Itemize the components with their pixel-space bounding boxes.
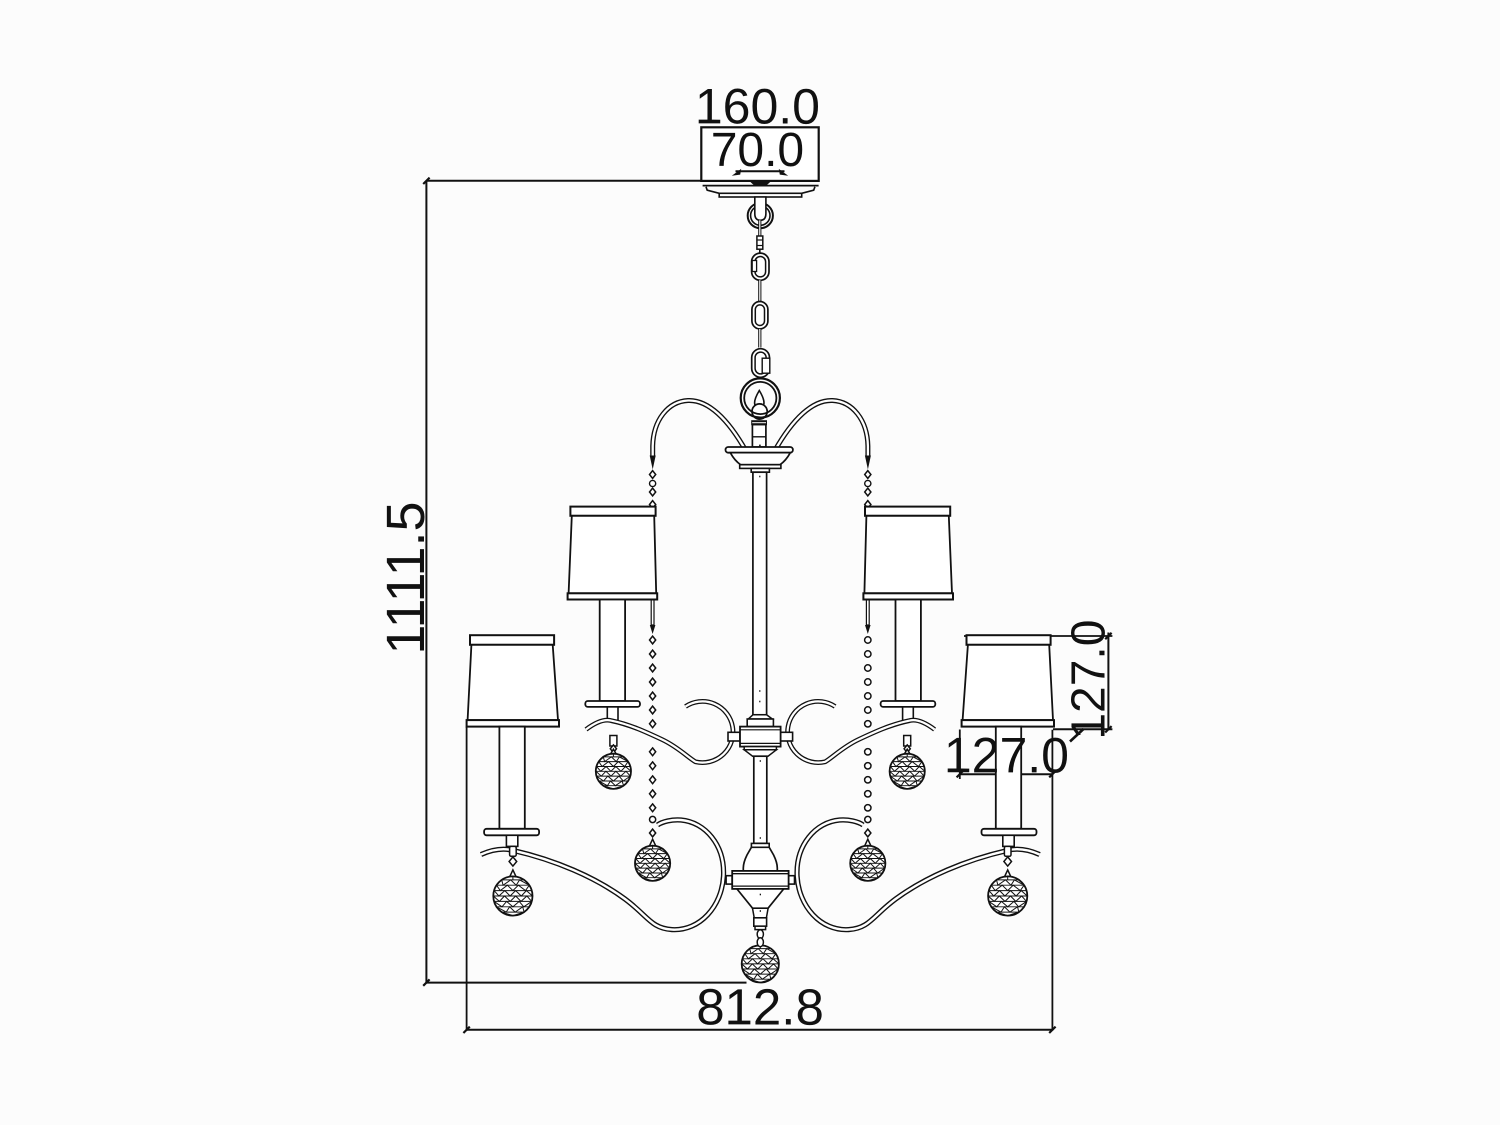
- column tube lower: [754, 756, 767, 843]
- lower-right bobeche stem: [1003, 835, 1014, 846]
- dimension text 160.0: [695, 78, 820, 134]
- dimension 812.8 extension line right: [1051, 730, 1053, 1031]
- svg-text:70.0: 70.0: [711, 124, 805, 177]
- chain link 3: [752, 349, 770, 378]
- finial links: [757, 930, 763, 947]
- lower-left lampshade: [467, 635, 559, 726]
- chain wire 3: [758, 280, 761, 301]
- dimension 127.0 vertical extension bottom: [1053, 728, 1112, 730]
- chain link 1: [752, 253, 769, 280]
- chain link 2: [752, 302, 768, 329]
- svg-text:127.0: 127.0: [1063, 620, 1116, 740]
- left chain crystal ball: [635, 839, 670, 881]
- chain wire 4: [758, 329, 761, 348]
- dimension 1111.5 extension line bottom: [426, 982, 746, 984]
- upper-left bobeche: [585, 701, 640, 707]
- upper-left drop bead: [610, 736, 617, 753]
- hub2 drum: [732, 871, 788, 889]
- lower-left drop bead: [509, 846, 517, 866]
- lower-right crystal ball: [988, 870, 1027, 916]
- left gooseneck arm: [650, 400, 746, 469]
- upper-right candle sleeve: [896, 600, 921, 702]
- 70.0 arrow: [732, 169, 788, 176]
- dimension 127.0 horizontal line: [957, 771, 1056, 777]
- hub1 body: [740, 727, 781, 747]
- bobeche bell: [730, 453, 790, 469]
- right bead chain: [865, 471, 871, 837]
- svg-text:127.0: 127.0: [944, 727, 1069, 783]
- oblique tick mark: [1070, 729, 1084, 742]
- canopy mount plate: [703, 182, 819, 186]
- flame finial: [755, 391, 764, 409]
- canopy loop ring: [748, 203, 773, 228]
- dimension 812.8 line: [463, 1027, 1055, 1033]
- finial stem: [754, 918, 767, 930]
- upper-left crystal ball: [596, 749, 631, 789]
- lower cone: [737, 889, 784, 918]
- candle collar: [752, 421, 767, 425]
- upper-left bobeche stem: [607, 707, 618, 720]
- hub1 right stub: [781, 732, 793, 741]
- lower-right bobeche: [982, 829, 1037, 836]
- upper-left candle sleeve: [600, 600, 625, 702]
- lower-right drop bead: [1004, 846, 1012, 866]
- right chain crystal ball: [850, 839, 885, 881]
- hub2 right stub: [788, 876, 794, 884]
- hub1 left stub: [728, 732, 740, 741]
- hub2 left stub: [726, 876, 732, 884]
- candle knob: [752, 404, 767, 419]
- column tube upper: [753, 472, 767, 715]
- upper-right crystal ball: [890, 749, 925, 789]
- upper-right scroll arm: [788, 701, 935, 762]
- chain ferrule: [757, 236, 763, 249]
- lower-right lampshade: [962, 635, 1054, 726]
- dimension text 70.0: [711, 124, 805, 177]
- dimension text 1111.5: [376, 501, 436, 654]
- upper-right drop bead: [904, 736, 911, 753]
- lower-left candle sleeve: [499, 727, 524, 829]
- svg-text:812.8: 812.8: [696, 978, 824, 1035]
- dimension text 812.8: [696, 978, 824, 1035]
- lower-right candle sleeve: [996, 727, 1021, 829]
- dimension 127.0 vertical extension top: [964, 635, 1112, 637]
- suspension ring: [741, 378, 780, 417]
- urn: [743, 847, 777, 871]
- dimension 1111.5 line: [423, 178, 429, 986]
- upper-right lampshade: [863, 507, 953, 600]
- column collar2: [751, 843, 769, 847]
- lower-right scroll arm: [797, 820, 1040, 930]
- upper-left lampshade: [568, 507, 658, 600]
- upper-right bobeche: [881, 701, 936, 707]
- dimension text 127.0 horizontal: [944, 727, 1069, 783]
- center bobeche plate: [726, 445, 793, 453]
- lower-left bobeche: [484, 829, 539, 836]
- canopy lower shoulder: [706, 187, 815, 197]
- column neck: [751, 468, 769, 472]
- column flare: [747, 715, 773, 727]
- right gooseneck arm: [775, 400, 871, 469]
- dimension 127.0 horizontal extension left: [959, 730, 961, 780]
- svg-text:1111.5: 1111.5: [376, 501, 436, 654]
- upper-left scroll arm: [586, 701, 733, 762]
- center candle: [752, 425, 766, 447]
- hub1 shoulder: [744, 747, 776, 757]
- chain wire 1: [758, 220, 761, 236]
- left bead chain: [650, 471, 656, 837]
- bottom crystal ball: [742, 941, 779, 982]
- lower-left bobeche stem: [506, 835, 517, 846]
- chain wire 2: [759, 249, 761, 254]
- ceiling canopy box: [701, 127, 818, 181]
- dimension 127.0 vertical line: [1105, 633, 1111, 733]
- lower-left scroll arm: [481, 820, 724, 930]
- dimension 1111.5 extension line top: [426, 180, 701, 182]
- dimension text 127.0 vertical: [1063, 620, 1116, 740]
- upper-right bobeche stem: [903, 707, 914, 720]
- dimension 812.8 extension line left: [466, 727, 468, 1031]
- lower-left crystal ball: [493, 870, 532, 916]
- canopy stem strap: [755, 197, 766, 220]
